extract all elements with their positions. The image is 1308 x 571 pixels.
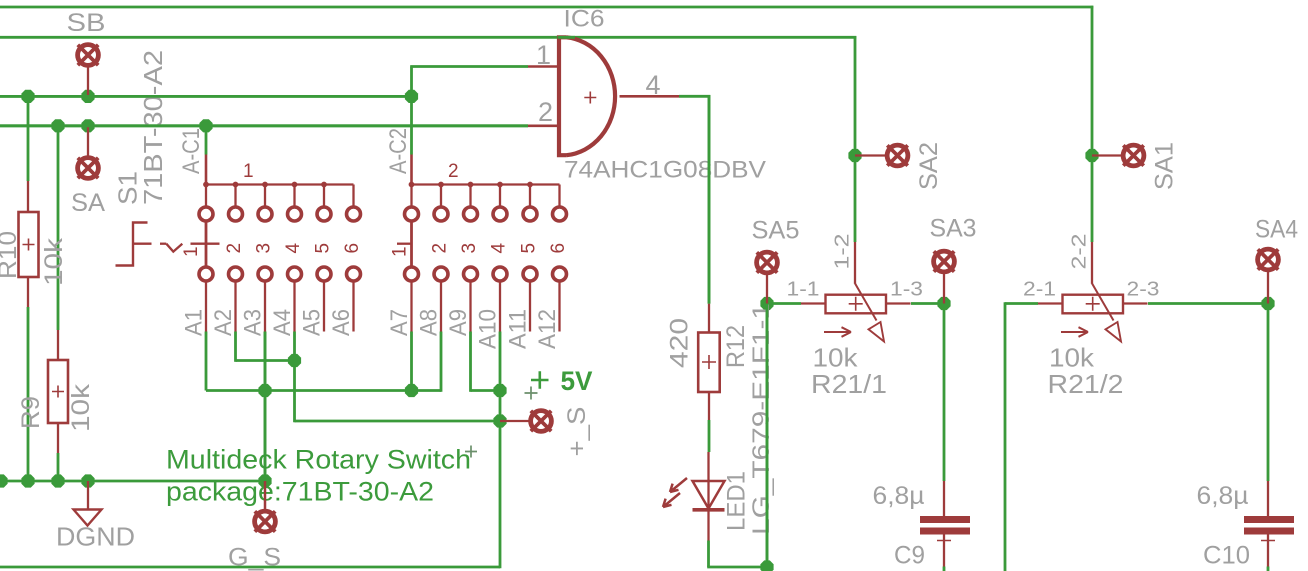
potentiometer R21/1 adjust arrow	[824, 327, 851, 337]
svg-text:10k: 10k	[813, 343, 859, 373]
junction LED/SA5	[760, 560, 773, 571]
LED LED1 cathode bar	[693, 508, 725, 512]
pad SA4 stub	[1267, 272, 1269, 304]
switch S1 deck 2 contact row2 pos2	[434, 267, 448, 281]
svg-text:A11: A11	[505, 309, 532, 349]
switch S1 deck 1 contact row2 pin stub pos1	[205, 281, 207, 332]
wire A3 vertical to DGND net	[264, 332, 267, 482]
switch S1 deck 1 contact row1 pos2	[229, 207, 243, 221]
switch S1 deck 1 contact row2 pos3	[258, 267, 272, 281]
svg-text:LG_T679-E1F1-1: LG_T679-E1F1-1	[748, 303, 775, 535]
svg-text:2: 2	[448, 161, 459, 182]
switch S1 deck 2 bus dot 1	[409, 182, 415, 188]
capacitor C9 top pin	[943, 481, 945, 517]
svg-text:A12: A12	[534, 309, 561, 349]
pad SB	[78, 45, 99, 66]
switch S1 deck 1 contact row2 pos5	[317, 267, 331, 281]
potentiometer R21/1 left pin	[801, 302, 826, 304]
pad G_S	[255, 511, 276, 532]
switch S1 deck 1 bus dot 5	[321, 182, 327, 188]
switch S1 deck 1 common stub	[205, 185, 207, 208]
switch S1 deck 1 bus stub x294.5	[293, 185, 295, 208]
LED LED1 light arrow 2	[663, 493, 680, 507]
wire IC6 output vertical to R12	[708, 95, 711, 304]
resistor R10 origin cross	[23, 239, 35, 251]
ground DGND triangle	[74, 510, 102, 526]
potentiometer R21/1 origin cross	[849, 297, 863, 311]
wire A2-A4 horizontal	[236, 359, 295, 362]
resistor R12 body	[698, 333, 720, 393]
svg-text:6,8µ: 6,8µ	[1197, 482, 1249, 510]
switch S1 deck 1 contact row2 pin stub pos6	[352, 281, 354, 332]
junction A7	[405, 384, 418, 397]
origin cross 5V symbol	[525, 387, 538, 400]
supply +5V cross	[531, 371, 549, 389]
switch S1 deck 2 contact row1 pos4	[493, 207, 507, 221]
switch S1 deck 1 common pin	[205, 155, 208, 185]
capacitor C10 origin cross	[1261, 534, 1275, 548]
svg-text:IC6: IC6	[564, 6, 605, 33]
svg-text:SB: SB	[67, 9, 106, 37]
switch S1 deck 1 bus dot 4	[292, 182, 298, 188]
junction SA4/C10	[1261, 297, 1274, 310]
switch S1 deck 2 contact row1 pos3	[464, 207, 478, 221]
resistor R10 bottom pin	[27, 277, 29, 307]
switch S1 deck 2 common vertical	[410, 221, 413, 268]
svg-text:10k: 10k	[67, 383, 95, 432]
switch S1 deck 2 bus dot 5	[527, 182, 533, 188]
pad SA1	[1123, 145, 1144, 166]
junction R10/DGND	[21, 474, 34, 487]
IC6 pin 1	[528, 65, 559, 68]
potentiometer R21/1 wiper diagonal	[855, 283, 877, 320]
capacitor C10 top pin	[1267, 481, 1269, 517]
junction SA5	[760, 297, 773, 310]
switch S1 deck 2 common pin	[410, 155, 413, 185]
svg-text:SA5: SA5	[752, 217, 800, 245]
pad S stub	[500, 420, 529, 422]
svg-text:A3: A3	[240, 309, 267, 336]
svg-text:A8: A8	[416, 309, 443, 336]
switch S1 deck 2 contact row2 pin stub pos3	[469, 281, 471, 332]
svg-text:5V: 5V	[561, 366, 593, 396]
wire net VCC1 top horizontal	[0, 6, 1093, 9]
svg-text:1: 1	[536, 40, 551, 70]
switch S1 deck 1 common vertical	[205, 221, 208, 268]
svg-text:4: 4	[283, 243, 304, 254]
svg-text:package:71BT-30-A2: package:71BT-30-A2	[166, 477, 434, 507]
wire SA5 to R21/1 pin 1-1	[767, 302, 801, 305]
switch S1 deck 2 contact row2 pos5	[523, 267, 537, 281]
switch S1 deck 2 contact row2 pos6	[553, 267, 567, 281]
svg-text:74AHC1G08DBV: 74AHC1G08DBV	[564, 157, 766, 184]
switch S1 deck 1 contact row2 pin stub pos5	[323, 281, 325, 332]
wire R21/1 pin 1-3 to C9	[911, 302, 944, 305]
LED LED1 light arrow 1	[670, 478, 687, 492]
switch S1 deck 2 bus stub x441	[440, 185, 442, 208]
svg-text:A-C1: A-C1	[178, 128, 205, 174]
junction DGND sym	[81, 474, 94, 487]
wire R9 top vertical	[57, 126, 60, 330]
capacitor C10 bottom pin	[1267, 535, 1269, 567]
svg-text:2: 2	[224, 243, 245, 254]
wire R21/2 pin 2-3 to C10	[1148, 302, 1268, 305]
origin cross multideck note	[465, 446, 477, 458]
svg-text:5: 5	[518, 243, 539, 254]
svg-text:+_S: +_S	[563, 407, 591, 457]
wire overlay IC6 output vertical	[708, 95, 711, 304]
svg-text:6: 6	[548, 243, 569, 254]
wire LED1 bottom vertical	[707, 541, 710, 568]
switch S1 mechanical bracket	[116, 223, 148, 266]
potentiometer R21/2 origin cross	[1086, 297, 1100, 311]
wire SA5 net vertical	[766, 304, 769, 568]
IC6 pin 4 output	[620, 95, 680, 98]
svg-text:10k: 10k	[1049, 343, 1095, 373]
potentiometer R21/2 adjust arrow	[1061, 327, 1088, 337]
svg-text:1: 1	[243, 161, 254, 182]
svg-text:2: 2	[538, 97, 553, 127]
svg-text:4: 4	[488, 243, 509, 254]
capacitor C9 bottom pin	[943, 535, 945, 567]
switch S1 deck 2 contact row2 pin stub pos6	[558, 281, 560, 332]
switch S1 wiper dash A	[134, 243, 152, 245]
potentiometer R21/2 wiper diagonal	[1092, 283, 1114, 320]
wire net W2 horizontal row 2 to IC6 pin2	[0, 124, 528, 127]
svg-text:71BT-30-A2: 71BT-30-A2	[138, 50, 168, 205]
junction DGND left	[0, 474, 8, 487]
svg-text:C9: C9	[894, 542, 925, 570]
pad SA2 stub	[855, 154, 885, 156]
wire IC6 pin1 link vertical	[410, 67, 413, 98]
switch S1 deck 2 bus dot 3	[468, 182, 474, 188]
switch S1 deck 1 contact row1 pos6	[347, 207, 361, 221]
svg-text:2-3: 2-3	[1127, 279, 1160, 301]
svg-text:5: 5	[312, 243, 333, 254]
potentiometer R21/2 left pin	[1038, 302, 1063, 304]
switch S1 wiper tick deck1	[191, 243, 220, 245]
wire A9 vertical	[469, 332, 472, 392]
resistor R10 top pin	[27, 181, 29, 212]
pad SA5 stub	[766, 275, 768, 304]
potentiometer R21/1 right pin	[886, 302, 911, 304]
wire C10 bottom tail	[1267, 567, 1270, 571]
junction S pad	[493, 414, 506, 427]
svg-text:A2: A2	[210, 309, 237, 336]
switch S1 deck 1 contact row1 pos5	[317, 207, 331, 221]
pad SB stub	[87, 66, 89, 96]
junction R9/W2	[51, 119, 64, 132]
switch S1 deck 1 contact row2 pin stub pos2	[234, 281, 236, 332]
switch S1 deck 1 contact row1 pos1	[199, 207, 213, 221]
svg-text:G_S: G_S	[228, 544, 281, 571]
potentiometer R21/1 wiper arrowhead	[869, 322, 885, 342]
switch S1 deck 1 bus stub x324	[323, 185, 325, 208]
svg-text:SA2: SA2	[915, 142, 943, 190]
svg-text:SA: SA	[71, 189, 105, 217]
svg-text:1-3: 1-3	[890, 279, 923, 301]
svg-text:Multideck Rotary Switch: Multideck Rotary Switch	[166, 445, 471, 475]
svg-text:2: 2	[429, 243, 450, 254]
svg-text:A9: A9	[445, 309, 472, 336]
switch S1 deck 2 contact row1 pos5	[523, 207, 537, 221]
svg-text:10k: 10k	[40, 237, 68, 286]
wire A2 vertical	[234, 332, 237, 362]
junction SB/W1	[81, 90, 94, 103]
switch S1 deck 2 contact row2 pin stub pos4	[499, 281, 501, 332]
svg-text:6,8µ: 6,8µ	[873, 482, 925, 510]
svg-text:LED1: LED1	[723, 471, 751, 531]
junction R10/W1	[21, 90, 34, 103]
switch S1 deck 2 contact row1 pos2	[434, 207, 448, 221]
switch S1 deck 1 contact row2 pos2	[229, 267, 243, 281]
pad SA5	[757, 252, 778, 273]
junction SA3/C9	[937, 297, 950, 310]
switch S1 deck 1 contact row2 pos1	[199, 267, 213, 281]
pad SA1 stub	[1092, 154, 1121, 156]
svg-text:A5: A5	[299, 309, 326, 336]
wire R9 bottom vertical	[57, 453, 60, 481]
wire DGND net horizontal	[0, 480, 265, 483]
switch S1 deck 2 bus dot 2	[438, 182, 444, 188]
wire A-bus horizontal y390	[206, 389, 441, 392]
wire IC6 pin1 link horizontal	[410, 65, 528, 68]
capacitor C9 origin cross	[937, 534, 951, 548]
wire R21/2 pin 2-1 horizontal	[1005, 302, 1038, 305]
svg-text:3: 3	[459, 243, 480, 254]
svg-text:A6: A6	[328, 309, 355, 336]
junction deck1/W2	[199, 119, 212, 132]
LED LED1 top pin	[707, 452, 709, 481]
svg-text:R9: R9	[17, 396, 45, 429]
switch S1 deck 1 bus line	[206, 183, 354, 185]
potentiometer R21/1 body	[826, 295, 887, 314]
switch S1 deck 2 bus stub x470.5	[469, 185, 471, 208]
wire C10 top vertical	[1267, 304, 1270, 482]
junction A9-A10	[493, 384, 506, 397]
svg-text:A1: A1	[181, 309, 208, 336]
resistor R9 origin cross	[52, 386, 64, 398]
switch S1 deck 1 bus stub x265	[264, 185, 266, 208]
wire overlay G_S stub	[264, 481, 266, 510]
potentiometer R21/2 right pin	[1123, 302, 1148, 304]
wire net VCC1 right vertical to R21/2 wiper	[1091, 6, 1094, 242]
svg-text:A7: A7	[386, 309, 413, 336]
wire overlay W1	[0, 95, 412, 98]
wire R21/2 left vertical	[1004, 302, 1007, 571]
switch S1 deck 1 contact row1 pos4	[288, 207, 302, 221]
svg-text:6: 6	[342, 243, 363, 254]
switch S1 deck 1 contact row2 pos4	[288, 267, 302, 281]
switch S1 deck 1 contact row2 pos6	[347, 267, 361, 281]
svg-text:A-C2: A-C2	[385, 128, 412, 174]
switch S1 deck 1 bus dot 3	[262, 182, 268, 188]
wire +S vertical	[499, 332, 502, 569]
pad SA stub	[87, 126, 89, 157]
svg-text:R21/2: R21/2	[1048, 369, 1124, 399]
wire R12 to LED1 vertical	[708, 420, 711, 452]
switch S1 wiper dash B	[160, 243, 166, 245]
wire IC6 output horizontal	[679, 95, 710, 98]
svg-text:R10: R10	[0, 231, 22, 279]
wire net N2 second horizontal	[0, 36, 856, 39]
resistor R12 top pin	[708, 304, 710, 333]
switch S1 wiper chevron	[166, 244, 182, 252]
wire overlay A3 vertical	[264, 332, 267, 482]
resistor R9 top pin	[57, 330, 59, 360]
resistor R9 bottom pin	[57, 423, 59, 453]
switch S1 deck 2 contact row1 pos1	[405, 207, 419, 221]
pad SA	[78, 158, 99, 179]
svg-text:2-1: 2-1	[1023, 279, 1056, 301]
pad SA4	[1258, 249, 1279, 270]
svg-text:R12: R12	[722, 325, 750, 368]
potentiometer R21/2 wiper arrowhead	[1106, 322, 1122, 342]
LED LED1 pin through	[707, 481, 709, 541]
svg-text:1: 1	[181, 246, 202, 257]
junction SA/W2	[81, 119, 94, 132]
wire net W1 horizontal row 1	[0, 95, 412, 98]
junction A2-A4	[288, 354, 301, 367]
capacitor C10 plate 2	[1244, 528, 1294, 535]
svg-text:DGND: DGND	[56, 522, 135, 552]
svg-text:1: 1	[389, 246, 410, 257]
switch S1 deck 2 contact row1 pos6	[553, 207, 567, 221]
wire C9 top vertical	[943, 304, 946, 482]
pad SA2	[887, 145, 908, 166]
capacitor C10 plate 1	[1244, 516, 1294, 523]
switch S1 deck 2 contact row2 pos1	[405, 267, 419, 281]
op-amp U IC6 AND gate body	[559, 37, 615, 155]
svg-text:2-2: 2-2	[1069, 234, 1091, 270]
resistor R9 body	[48, 360, 68, 423]
junction G_S	[258, 474, 271, 487]
svg-text:1-2: 1-2	[832, 234, 854, 270]
junction SA1	[1085, 149, 1098, 162]
wire overlay SA5 vertical	[766, 304, 769, 568]
IC6 pin 2	[528, 125, 559, 128]
switch S1 deck 1 bus dot 1	[203, 182, 209, 188]
svg-text:A10: A10	[475, 309, 502, 349]
pad +_S	[531, 411, 552, 432]
svg-text:R21/1: R21/1	[811, 369, 887, 399]
svg-text:420: 420	[666, 318, 694, 368]
resistor R10 body	[19, 212, 39, 277]
pad SA3 stub	[943, 274, 945, 304]
switch S1 deck 1 contact row2 pin stub pos4	[293, 281, 295, 332]
wire R10 bottom vertical	[27, 307, 30, 481]
wire A1 vertical	[205, 332, 208, 391]
switch S1 deck 1 bus stub x235.5	[234, 185, 236, 208]
switch S1 deck 2 contact row2 pin stub pos5	[529, 281, 531, 332]
switch S1 deck 1 contact row2 pin stub pos3	[264, 281, 266, 332]
capacitor C9 plate 2	[920, 528, 970, 535]
potentiometer R21/2 body	[1063, 295, 1124, 314]
svg-text:1-1: 1-1	[787, 279, 820, 301]
wire A4 to S pad horizontal	[295, 420, 501, 423]
switch S1 deck 2 bus line	[412, 183, 560, 185]
switch S1 wiper tick deck2	[397, 243, 412, 245]
pad SA3	[934, 251, 955, 272]
svg-text:A4: A4	[269, 309, 296, 336]
potentiometer R21/2 wiper pin	[1091, 242, 1093, 284]
wire A4 vertical	[293, 332, 296, 423]
pad G_S stub	[264, 481, 266, 510]
svg-text:3: 3	[253, 243, 274, 254]
wire deck2 common link	[410, 96, 413, 154]
LED LED1 triangle	[693, 481, 725, 509]
wire A7 vertical	[410, 332, 413, 391]
junction SA2	[848, 149, 861, 162]
switch S1 deck 1 bus dot 2	[233, 182, 239, 188]
switch S1 deck 2 contact row2 pos3	[464, 267, 478, 281]
DGND symbol stub	[87, 481, 89, 509]
switch S1 deck 2 bus stub x500	[499, 185, 501, 208]
wire R10 top vertical	[27, 96, 30, 181]
svg-text:SA4: SA4	[1255, 216, 1298, 244]
switch S1 deck 2 bus stub x530	[529, 185, 531, 208]
wire C9 bottom tail	[943, 567, 946, 571]
resistor R12 bottom pin	[708, 392, 710, 420]
switch S1 deck 2 bus corner	[558, 185, 560, 208]
junction deck2/W1	[405, 90, 418, 103]
wire net N2 overlay on gate top	[558, 36, 576, 39]
wire LED1 bottom horizontal to SA5 net	[707, 566, 767, 569]
switch S1 deck 2 contact row2 pin stub pos1	[410, 281, 412, 332]
switch S1 deck 2 contact row2 pos4	[493, 267, 507, 281]
switch S1 deck 2 contact row2 pin stub pos2	[440, 281, 442, 332]
switch S1 deck 2 bus dot 4	[497, 182, 503, 188]
wire A9-A10 horizontal	[471, 389, 501, 392]
wire deck1 common link	[205, 126, 208, 155]
svg-text:SA1: SA1	[1151, 142, 1179, 190]
IC6 origin cross	[584, 92, 596, 104]
resistor R12 origin cross	[702, 355, 716, 369]
potentiometer R21/1 wiper pin	[854, 242, 856, 284]
capacitor C9 plate 1	[920, 516, 970, 523]
wire overlay W2	[0, 124, 528, 127]
wire net N2 vertical to R21/1 wiper	[854, 36, 857, 242]
switch S1 deck 1 bus corner	[352, 185, 354, 208]
switch S1 deck 1 contact row1 pos3	[258, 207, 272, 221]
switch S1 deck 2 common stub	[410, 185, 412, 208]
wire bottom +S horizontal	[0, 566, 500, 569]
svg-text:SA3: SA3	[930, 215, 977, 243]
wire A8 vertical	[440, 332, 443, 392]
svg-text:C10: C10	[1203, 542, 1250, 570]
svg-text:4: 4	[646, 70, 661, 100]
junction R9/DGND	[51, 474, 64, 487]
junction A3	[258, 384, 271, 397]
